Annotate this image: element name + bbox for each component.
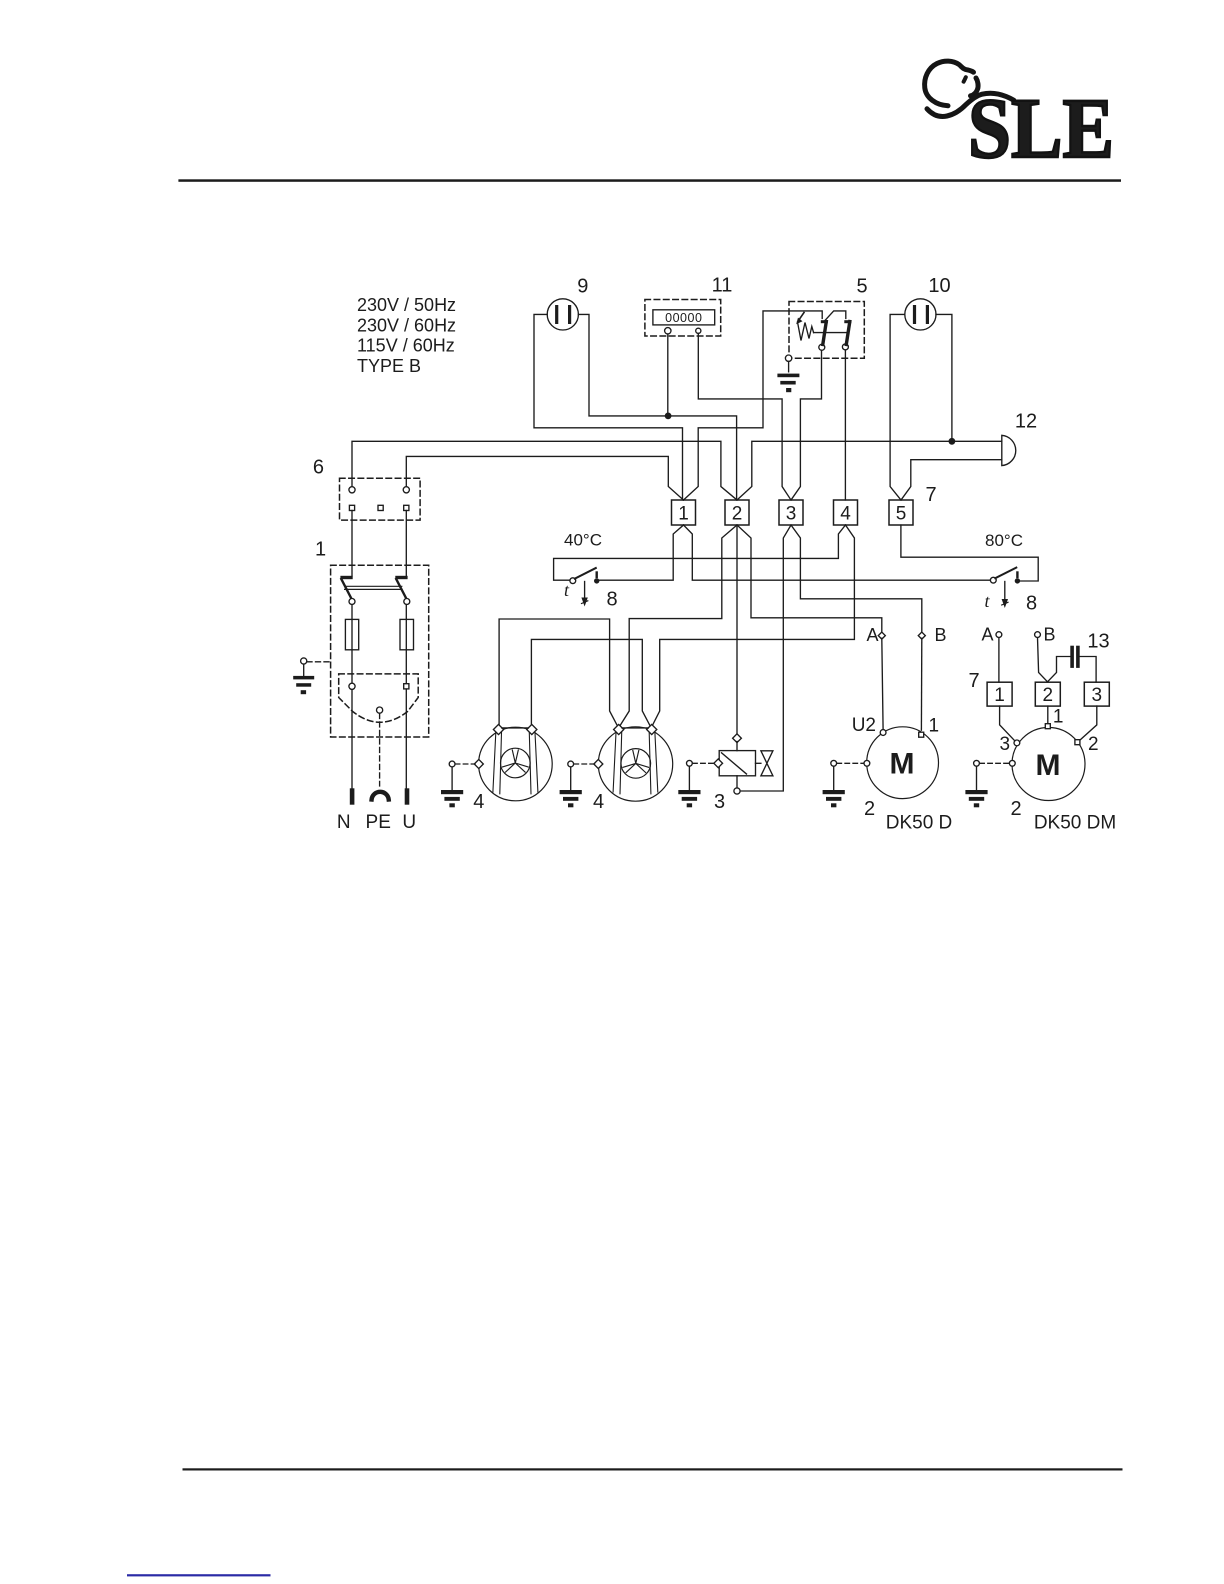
wire node B to connector 7 pin 2 [1038, 638, 1048, 682]
pressure switch 5 actuator arrow [799, 313, 805, 321]
ground (fan 4b) [570, 767, 572, 790]
connector 6 pin top-right [403, 487, 409, 493]
footer rule [183, 1468, 1123, 1470]
svg-text:80°C: 80°C [985, 531, 1023, 550]
pressure switch 5 spring element [798, 322, 814, 341]
wire terminal box 4 left via 40C line to thermostat 8a [554, 525, 846, 580]
wire capacitor 13 left to connector 7 pin 2 [1048, 657, 1071, 682]
junction node 9/11 [665, 413, 672, 420]
svg-text:2: 2 [864, 798, 875, 820]
fan 4a winding lead right [529, 733, 538, 794]
svg-text:N: N [337, 812, 351, 833]
wire capacitor 10 left to terminal box 5 left [890, 314, 905, 500]
ground (valve 3) [688, 766, 690, 790]
wire thermostat 8b contact to terminal box 5 [901, 525, 1038, 581]
wire connector 6 to switch 1 pole U [405, 511, 407, 576]
motor DK50 DM case terminal [1009, 760, 1015, 766]
wire pressure switch 5 contact 2 to terminal box 4 [844, 350, 846, 500]
solenoid valve 3 left terminal [714, 759, 723, 768]
switch 1 linkage bar [345, 586, 402, 589]
wire mains switch 6 right to terminal box 1 left [406, 456, 683, 500]
svg-text:B: B [1044, 625, 1056, 645]
svg-text:1: 1 [678, 504, 689, 525]
svg-text:11: 11 [712, 274, 733, 296]
solenoid valve 3 bottom terminal wire [736, 776, 738, 788]
svg-text:DK50 D: DK50 D [886, 813, 953, 834]
svg-text:4: 4 [593, 791, 604, 813]
wire terminal box 3 right to motor DK50D terminal B [791, 525, 922, 633]
svg-text:10: 10 [928, 275, 950, 297]
ground terminal (DK50 DM) [974, 760, 980, 766]
svg-text:2: 2 [1088, 734, 1099, 755]
svg-text:13: 13 [1087, 631, 1109, 653]
mains switch 1 dashed enclosure [331, 565, 429, 737]
ground (DK50 D) [833, 766, 835, 790]
svg-text:7: 7 [925, 484, 936, 506]
motor DK50 D body [867, 727, 939, 799]
footer blue link line [127, 1574, 271, 1576]
cord end N [350, 788, 355, 804]
wire counter 11 right pin to terminal box 3 left [698, 333, 791, 500]
wire switch 1 pole N to fuse FN [351, 605, 353, 684]
wire terminal box 2 right to buzzer 12 top [737, 441, 1002, 500]
node B (DK50 D) [918, 632, 925, 639]
thermostat 8a blade [575, 568, 596, 579]
svg-text:M: M [890, 748, 915, 781]
thermostat 8b actuator arrow [1004, 582, 1006, 604]
inlet pin PE [377, 707, 383, 713]
svg-text:5: 5 [896, 504, 907, 525]
solenoid valve 3 top terminal [733, 734, 742, 743]
svg-text:TYPE B: TYPE B [357, 356, 421, 376]
terminal box 5 [889, 500, 913, 525]
wire capacitor 13 right to connector 7 pin 3 [1080, 657, 1096, 683]
connector 6 pin bottom-center [378, 505, 383, 510]
wire connector 7 pin 1 to motor DM terminal 3 [1000, 706, 1015, 741]
thermostat 8a pivot [570, 578, 576, 584]
node B (DK50 DM) [1035, 632, 1041, 638]
svg-text:2: 2 [1010, 798, 1021, 820]
connector 6 pin bottom-left [349, 505, 354, 510]
pressure switch 5 link bar [814, 332, 848, 334]
wire node A to motor terminal U2 [882, 638, 883, 729]
wire buzzer 12 bottom to terminal box 5 right [901, 460, 1002, 500]
connector 7 pin 2 box [1035, 682, 1060, 706]
svg-text:4: 4 [473, 791, 484, 813]
wire connector 6 to switch 1 pole N [351, 511, 353, 576]
motor DK50 DM terminal 1 [1045, 724, 1050, 729]
svg-text:1: 1 [315, 539, 326, 561]
wire link fan 4a left to fan 4b left [499, 619, 617, 726]
ground terminal (fan 4b) [568, 761, 574, 767]
ground (pressure switch 5) [788, 361, 790, 371]
header rule [178, 179, 1121, 182]
svg-text:9: 9 [577, 275, 588, 297]
ground terminal (valve 3) [687, 760, 693, 766]
svg-text:PE: PE [366, 812, 391, 833]
capacitor 9 [547, 299, 578, 330]
logo SLE baby-head sketch [925, 61, 1014, 116]
svg-text:M: M [1036, 749, 1061, 782]
node A (DK50 D) [878, 632, 885, 639]
wire pressure switch 5 contact 1 to terminal box 3 right [791, 350, 822, 500]
fan 4a propeller [503, 750, 529, 772]
mains connector 6 dashed enclosure [340, 478, 421, 520]
ground link dashed (DK50 DM) [980, 762, 1009, 764]
wire terminal box 3 left to valve 3 bottom [740, 525, 791, 791]
wire inlet PE dashed [379, 713, 381, 786]
fan 4b winding lead left [613, 733, 622, 794]
svg-text:230V / 60Hz: 230V / 60Hz [357, 315, 456, 335]
solenoid valve 3 coil [719, 751, 755, 776]
junction node 10/12 [949, 438, 956, 445]
pressure switch 5 ground terminal [785, 355, 791, 361]
motor DK50 D terminal U2 [880, 730, 886, 736]
connector 7 pin 1 box [987, 682, 1012, 706]
svg-text:A: A [981, 625, 993, 645]
svg-text:B: B [935, 625, 947, 645]
pressure switch 5 pole 1 contact [819, 344, 825, 350]
wire connector 7 pin 3 to motor DM terminal 2 [1080, 706, 1097, 740]
fan 4a case terminal [474, 759, 483, 768]
ground link dashed (fan 4b) [574, 763, 595, 765]
pressure switch 5 pole 1 blade [821, 320, 828, 323]
wire link fan 4a right to fan 4b right [531, 639, 650, 725]
fan 4b terminal chord [622, 727, 648, 729]
svg-text:8: 8 [606, 589, 617, 611]
svg-text:SLE: SLE [968, 80, 1114, 176]
thermostat 8a contact [594, 578, 599, 583]
ground (mains switch 1) [303, 664, 305, 675]
motor DK50 D terminal 1 [919, 732, 924, 737]
svg-text:12: 12 [1015, 411, 1037, 433]
inlet plug outline [339, 674, 419, 722]
switch 1 pole N top contact [340, 576, 352, 579]
capacitor 10 [905, 299, 936, 330]
inlet pin N [349, 683, 355, 689]
fan 4b winding lead right [649, 733, 658, 794]
svg-text:40°C: 40°C [564, 531, 602, 550]
ground link dashed (fan 4a) [455, 763, 475, 765]
fan 4a hub [501, 748, 531, 778]
terminal box 2 [725, 500, 749, 525]
svg-text:A: A [866, 625, 878, 645]
connector 6 pin top-left [349, 487, 355, 493]
ground terminal (fan 4a) [449, 761, 455, 767]
svg-text:3: 3 [1000, 734, 1011, 755]
terminal box 1 [672, 500, 696, 525]
pressure switch 5 pole 2 blade [844, 320, 851, 323]
wire counter 11 left pin to node [667, 334, 669, 416]
svg-text:115V / 60Hz: 115V / 60Hz [357, 336, 455, 356]
motor DK50 DM terminal 2 [1075, 740, 1080, 745]
wire terminal box 1 right to thermostat 8b pivot [684, 525, 991, 580]
cord end PE arc [372, 792, 389, 800]
fan 4a terminal chord [502, 727, 529, 729]
wire node A to connector 7 pin 1 [998, 638, 1000, 683]
svg-text:3: 3 [786, 504, 797, 525]
capacitor 13 [1070, 646, 1074, 668]
ground terminal (DK50 D) [831, 760, 837, 766]
fan 4b propeller [623, 750, 649, 772]
wire thermostat 8a contact to terminal box 1 left [599, 525, 683, 580]
svg-text:8: 8 [1026, 593, 1037, 615]
buzzer 12 [1002, 435, 1016, 465]
wire switch 1 pole U to fuse FU [405, 605, 407, 684]
fan 4a terminal left [493, 724, 503, 734]
svg-text:U2: U2 [852, 715, 876, 736]
wire inlet N to cord end N [351, 690, 353, 788]
fan 4a body [479, 727, 553, 801]
wire terminal box 2 center to valve 3 [736, 525, 738, 735]
fuse FU [400, 619, 414, 649]
thermostat 8a actuator arrow [584, 582, 586, 602]
ground link dashed (mains switch 1) [307, 661, 331, 663]
svg-text:DK50 DM: DK50 DM [1034, 813, 1116, 834]
wire terminal box 2 left to fan 4b left [620, 525, 737, 726]
svg-text:3: 3 [1092, 685, 1103, 706]
connector 7 pin 3 box [1084, 682, 1109, 706]
node A (DK50 DM) [996, 632, 1002, 638]
cord end U [405, 788, 410, 804]
terminal box 4 [834, 500, 858, 525]
wire connector 7 pin 2 to motor DM terminal 1 [1047, 706, 1049, 723]
ground (mains switch 1) terminal [301, 658, 307, 664]
pressure switch 5 pole 2 contact [842, 344, 848, 350]
svg-text:2: 2 [732, 504, 743, 525]
svg-text:1: 1 [929, 716, 940, 737]
thermostat 8b contact [1015, 578, 1020, 583]
connector 6 pin bottom-right [404, 505, 409, 510]
svg-text:1: 1 [1053, 707, 1064, 728]
wire capacitor 10 right to node [936, 314, 952, 441]
svg-text:7: 7 [968, 670, 979, 692]
svg-text:1: 1 [994, 685, 1005, 706]
svg-text:3: 3 [714, 791, 725, 813]
ground (fan 4a) [451, 767, 453, 790]
thermostat 8b blade [995, 568, 1016, 579]
terminal box 3 [779, 500, 803, 525]
wire node B to motor terminal 1 [920, 638, 922, 730]
fan 4b terminal left [614, 724, 624, 734]
motor DK50 DM terminal 3 [1014, 740, 1020, 746]
wire capacitor 9 right to terminal box 2 center [578, 314, 736, 500]
pin terminal 11 left [665, 328, 671, 334]
wire terminal box 4 right to fan 4b right [652, 525, 854, 726]
svg-text:6: 6 [313, 457, 324, 479]
pressure switch 5 dashed enclosure [789, 302, 864, 359]
ground (DK50 DM) [976, 766, 978, 790]
fan 4a terminal right [527, 724, 537, 734]
pressure switch 5 drive linkage [825, 311, 846, 321]
svg-text:230V / 50Hz: 230V / 50Hz [357, 295, 456, 315]
motor DK50 D case terminal [864, 760, 870, 766]
motor DK50 DM body [1012, 728, 1085, 801]
ground link dashed (valve 3) [693, 762, 714, 764]
svg-text:U: U [402, 812, 416, 833]
svg-text:4: 4 [840, 504, 851, 525]
svg-text:5: 5 [856, 276, 867, 298]
wire terminal box 1 right to pressure switch 5 blade 1 [684, 311, 823, 500]
fan 4b terminal right [647, 724, 657, 734]
thermostat 8b pivot [990, 577, 996, 583]
svg-text:2: 2 [1043, 685, 1054, 706]
hour counter 11 [645, 300, 721, 337]
inlet pin U [404, 684, 409, 689]
pin terminal 11 right [696, 328, 701, 333]
switch 1 pole N blade [341, 579, 352, 600]
switch 1 pole U bottom contact [404, 599, 410, 605]
wire mains switch 6 left to terminal box 2 left [352, 441, 737, 500]
ground link dashed (DK50 D) [837, 762, 864, 764]
fan 4a winding lead left [493, 733, 502, 794]
wire terminal box 2 right to motor DK50D terminal A [737, 525, 882, 633]
fan 4b body [598, 727, 672, 801]
solenoid valve 3 body [756, 762, 761, 764]
switch 1 pole U blade [396, 579, 407, 600]
wire capacitor 9 left to terminal box 1 center [534, 314, 683, 500]
svg-text:00000: 00000 [665, 311, 702, 325]
wire inlet U to cord end U [405, 689, 407, 788]
switch 1 pole N bottom contact [349, 599, 355, 605]
switch 1 pole U top contact [395, 576, 407, 579]
fan 4b case terminal [594, 759, 603, 768]
fuse FN [345, 619, 358, 649]
fan 4b hub [621, 749, 651, 779]
